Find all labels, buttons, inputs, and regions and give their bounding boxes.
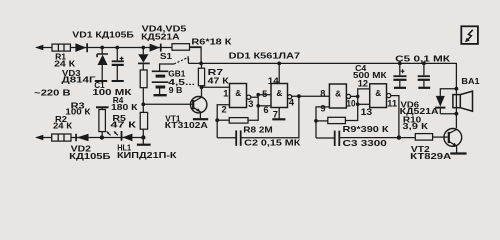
svg-text:BA1: BA1 [461,76,480,86]
svg-text:R9*390 К: R9*390 К [343,124,390,134]
svg-text:13: 13 [361,107,373,117]
svg-text:КТ829А: КТ829А [410,151,451,161]
svg-text:24 К: 24 К [53,121,73,131]
svg-text:DD1 К561ЛА7: DD1 К561ЛА7 [229,51,301,61]
svg-text:24 К: 24 К [54,59,76,69]
svg-text:КТ3102А: КТ3102А [165,120,208,130]
svg-text:КД521А: КД521А [141,31,180,41]
svg-text:C2 0,15 МК: C2 0,15 МК [244,138,301,148]
svg-text:&: & [276,88,282,98]
svg-text:1: 1 [223,89,228,99]
svg-text:R6*18 К: R6*18 К [191,37,232,47]
svg-text:100 К: 100 К [65,107,91,117]
svg-text:VD1 КД105Б: VD1 КД105Б [72,30,134,40]
svg-text:5: 5 [262,89,267,99]
svg-text:7: 7 [273,110,278,120]
svg-text:&: & [375,88,381,98]
svg-text:12: 12 [358,78,368,88]
svg-text:~220 В: ~220 В [34,87,70,97]
svg-text:Д814Г: Д814Г [62,75,96,85]
svg-text:2: 2 [222,105,227,115]
svg-text:S1: S1 [160,51,173,61]
svg-text:11: 11 [387,99,397,109]
svg-text:&: & [335,88,341,98]
svg-text:47 К: 47 К [110,120,137,130]
svg-text:9: 9 [321,103,326,113]
svg-text:10: 10 [346,99,355,109]
svg-text:3,9 К: 3,9 К [402,121,429,131]
svg-text:КИПД21П-К: КИПД21П-К [117,150,178,160]
svg-text:14: 14 [268,76,280,86]
svg-text:6: 6 [263,105,268,115]
svg-text:8: 8 [320,89,325,99]
svg-text:C5 0,1 МК: C5 0,1 МК [395,53,451,63]
svg-text:&: & [235,88,241,98]
svg-text:C3 3300: C3 3300 [343,138,388,148]
svg-text:КД105Б: КД105Б [69,151,110,161]
svg-text:180 К: 180 К [111,102,139,112]
svg-text:3: 3 [248,99,253,109]
svg-text:47 К: 47 К [208,75,230,85]
svg-text:9 В: 9 В [169,85,183,95]
svg-text:4: 4 [289,97,295,107]
svg-text:R8 2М: R8 2М [243,124,273,134]
